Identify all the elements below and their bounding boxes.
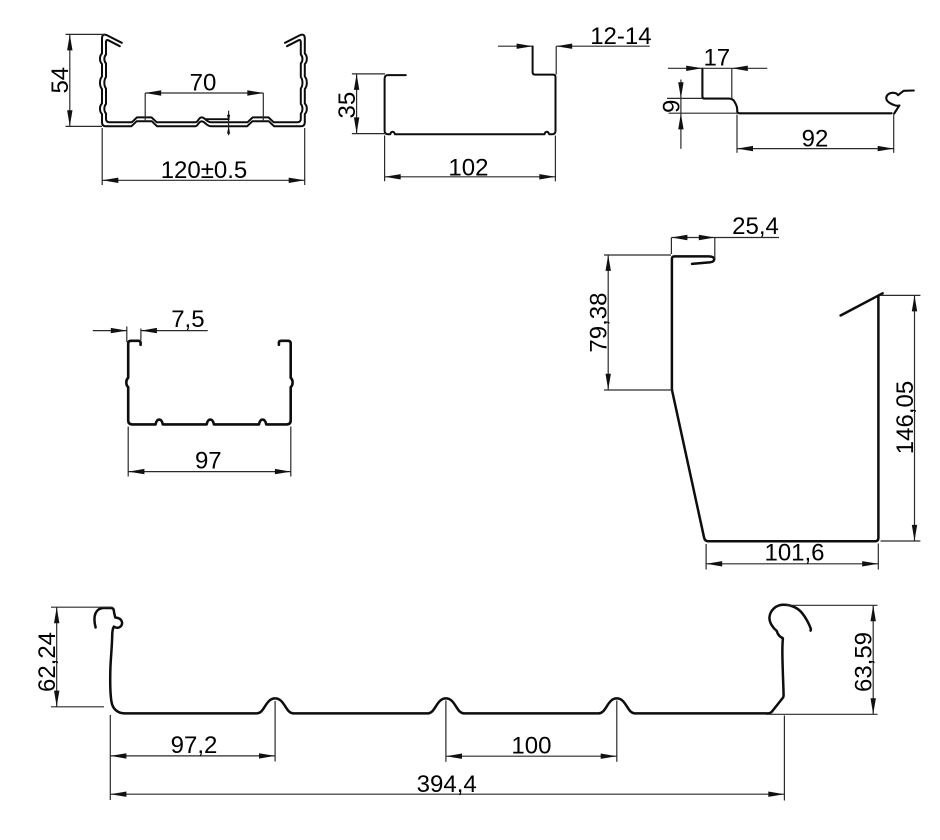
svg-text:12-14: 12-14 [590,23,651,50]
dim 7,5 arrow right [141,328,157,333]
dim 25,4 extension line right [714,238,716,259]
svg-text:62,24: 62,24 [34,632,61,692]
profile P4 contour [126,341,292,425]
dim 7,5 extension line left [126,327,128,343]
dim 17 line [668,67,767,69]
dim 7,5 leader right [141,330,208,332]
dim 146,05 arrow up [912,295,917,311]
dim 102 extension line left [384,136,386,182]
tick arrow upper [227,115,230,122]
profile P5 top flap [841,293,883,315]
dim 97 arrow left [128,469,144,474]
profile P1 outer contour [100,35,307,127]
dim 120 line [102,179,304,181]
svg-text:394,4: 394,4 [417,771,477,798]
dim 79,38 line [607,255,609,390]
dim 54 line [69,34,71,126]
dim 120 extension line left [101,128,103,185]
dim 25,4 extension line left [670,238,672,255]
svg-text:7,5: 7,5 [171,306,204,333]
dim 97 arrow right [275,469,291,474]
svg-text:79,38: 79,38 [586,293,613,353]
dim 120 arrow right [289,178,305,183]
svg-text:97: 97 [195,447,222,474]
dim 97,2 arrow right [259,753,275,758]
profile P3 end curl (hem hook) [886,91,914,114]
dim 70 arrow left [145,90,161,95]
dim 70 line [145,92,263,94]
dim 63,59 line [872,605,874,714]
dim 17 extension line right [731,68,733,98]
dim 12-14 leader right [556,45,650,47]
dim 54 extension line top [66,33,105,35]
profile P3 main contour [702,69,891,114]
dim 79,38 arrow down [606,374,611,390]
dim 12-14 arrow onto right leg [556,44,572,49]
dim 62,24 arrow down [54,691,59,707]
dim 97,2 line [110,755,275,757]
dim 17 arrow onto right edge [732,66,748,71]
dim 97,2 extension line right (rib 1 centerline) [274,701,276,762]
dim 92 line [737,148,894,150]
svg-text:120±0.5: 120±0.5 [161,157,248,184]
dim 100 extension line right (rib 3 centerline) [616,701,618,762]
dim 62,24 line [56,607,58,706]
dim 79,38 extension line top [604,254,671,256]
profile P5 main contour with hem [672,256,879,541]
dim 100 arrow left [446,754,462,759]
dim 100 line [446,755,617,757]
dim 101,6 extension line left [705,544,707,570]
dim 394,4 extension line right [783,716,785,801]
dim 100 arrow right [601,754,617,759]
dim 146,05 extension line top [881,294,921,296]
svg-text:54: 54 [47,67,74,94]
dim 394,4 arrow left [110,792,126,797]
dim 79,38 extension line bottom [604,389,672,391]
dim 12-14 leader left [498,45,533,47]
dim 35 line [356,74,358,133]
dim 92 arrow left [737,146,753,151]
dim 97 extension line left [127,427,129,477]
dim 35 extension line bottom [352,133,386,135]
profile P6 panel contour with seams and ribs [94,605,811,714]
dim 97,2 arrow left [110,753,126,758]
dim 146,05 line [914,295,916,541]
dim 54 extension line bottom [66,125,103,127]
dim 97,2 extension line left (shared with 394,4) [109,715,111,800]
dim 146,05 arrow down [912,525,917,541]
tick arrow lower [227,126,230,133]
dim 101,6 arrow right [862,561,878,566]
dim 63,59 extension line bottom [766,713,878,715]
dim 92 arrow right [878,146,894,151]
dim 35 arrow down [354,117,359,133]
dim 25,4 line [671,237,779,239]
dim 35 arrow up [354,74,359,90]
dim 63,59 arrow down [871,698,876,714]
svg-text:146,05: 146,05 [892,381,919,454]
dim 25,4 arrow left [671,235,687,240]
dim 102 line [385,176,556,178]
dim 146,05 extension line bottom [881,540,921,542]
dim 9 extension line top [667,97,702,99]
svg-text:70: 70 [190,70,217,97]
dim 12-14 arrow onto left leg [517,44,533,49]
dim 97 extension line right [290,427,292,477]
dim 102 extension line right [554,136,556,182]
dim 25,4 arrow right [699,235,715,240]
dim 101,6 line [706,563,878,565]
dim 12-14 extension line right [555,46,557,74]
dim 79,38 arrow up [606,255,611,271]
dim 9 arrow up onto base [678,113,683,129]
dim 9 line [680,80,682,149]
dim 54 arrow down [67,110,72,126]
dim 63,59 extension line top [786,604,878,606]
svg-text:101,6: 101,6 [764,539,824,566]
svg-text:92: 92 [802,125,829,152]
dim 394,4 line [110,793,784,795]
dim 70 extension line right [262,93,264,122]
dim 7,5 arrow left [111,328,127,333]
profile P1 lap seam line [206,118,229,120]
svg-text:25,4: 25,4 [732,213,779,240]
dim 35 extension line top [352,73,385,75]
dim 101,6 arrow left [706,561,722,566]
svg-text:63,59: 63,59 [851,632,878,692]
dim 7,5 extension line right [140,329,142,341]
dim 9 extension line bottom [669,112,738,114]
profile P2 contour [385,46,556,134]
dim 62,24 extension line bottom [51,706,104,708]
dim 120 arrow left [102,178,118,183]
centerline tick on P1 web [228,111,230,136]
dim 92 extension line left [736,115,738,153]
dim 62,24 arrow up [54,607,59,623]
dim 7,5 leader left [93,330,127,332]
dim 63,59 arrow up [871,605,876,621]
dim 70 extension line left [144,93,146,122]
dim 97 line [128,471,291,473]
profile P1 inner contour [104,40,302,122]
svg-text:102: 102 [448,154,488,181]
svg-text:35: 35 [334,92,361,119]
dim 9 arrow down onto ledge [678,82,683,98]
dim 102 arrow right [539,174,555,179]
dim 92 extension line right [893,115,895,153]
svg-text:17: 17 [703,44,730,71]
svg-text:97,2: 97,2 [171,732,218,759]
svg-text:9: 9 [659,100,686,113]
svg-text:100: 100 [511,733,551,760]
dim 394,4 arrow right [768,792,784,797]
dim 62,24 extension line top [51,606,113,608]
dim 17 arrow onto left edge [686,66,702,71]
dim 54 arrow up [67,34,72,50]
dim 102 arrow left [385,174,401,179]
dim 70 arrow right [247,90,263,95]
dim 120 extension line right [304,128,306,185]
dim 100 extension line left (rib 2 centerline) [445,701,447,762]
dim 101,6 extension line right [877,544,879,570]
